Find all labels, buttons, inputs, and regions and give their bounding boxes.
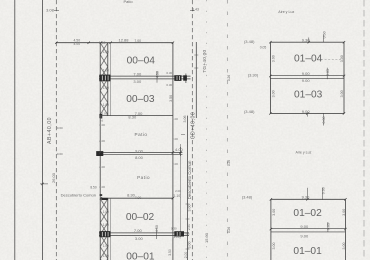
svg-text:1.00: 1.00 xyxy=(172,117,178,121)
svg-text:9.30: 9.30 xyxy=(302,38,311,43)
svg-text:9.30: 9.30 xyxy=(302,194,311,199)
svg-text:1.00: 1.00 xyxy=(100,115,104,122)
svg-text:1.00: 1.00 xyxy=(103,244,109,248)
svg-text:0.60: 0.60 xyxy=(323,31,327,38)
svg-text:1.00: 1.00 xyxy=(103,69,109,73)
svg-text:1.00: 1.00 xyxy=(103,223,109,227)
svg-text:(3.30): (3.30) xyxy=(248,72,259,77)
svg-text:01–01: 01–01 xyxy=(293,246,322,257)
svg-text:3.00: 3.00 xyxy=(272,209,276,216)
svg-text:0.05: 0.05 xyxy=(326,69,330,76)
svg-text:8.30: 8.30 xyxy=(128,115,137,120)
svg-text:1.00: 1.00 xyxy=(103,86,109,90)
svg-text:9.00: 9.00 xyxy=(300,224,309,229)
svg-text:0.30: 0.30 xyxy=(166,83,172,87)
svg-text:0.05: 0.05 xyxy=(260,45,267,49)
svg-text:(3.48): (3.48) xyxy=(244,109,255,114)
svg-text:1.00: 1.00 xyxy=(99,41,106,45)
svg-text:0.60: 0.60 xyxy=(57,152,63,156)
svg-text:3.00: 3.00 xyxy=(271,90,275,97)
svg-text:3.00: 3.00 xyxy=(272,243,276,250)
svg-text:3.00: 3.00 xyxy=(133,79,142,84)
svg-text:4.00: 4.00 xyxy=(175,147,184,152)
svg-text:1.00: 1.00 xyxy=(102,112,108,116)
svg-text:2.00: 2.00 xyxy=(172,137,178,141)
svg-text:(3.48): (3.48) xyxy=(242,195,253,200)
svg-text:3.50: 3.50 xyxy=(168,249,172,256)
svg-text:00–01: 00–01 xyxy=(126,252,155,260)
svg-text:8.00: 8.00 xyxy=(135,155,144,160)
svg-text:4.50: 4.50 xyxy=(156,71,160,78)
svg-text:0.26: 0.26 xyxy=(227,160,231,166)
svg-text:3.00: 3.00 xyxy=(342,243,346,250)
svg-text:00–04: 00–04 xyxy=(127,55,156,66)
svg-text:0.30: 0.30 xyxy=(171,227,177,231)
svg-text:00–02: 00–02 xyxy=(126,212,155,223)
svg-text:0.60: 0.60 xyxy=(57,126,63,130)
svg-text:Patio: Patio xyxy=(135,132,148,137)
svg-text:26.00: 26.00 xyxy=(51,172,56,183)
svg-text:0.30: 0.30 xyxy=(166,71,172,75)
svg-text:4.00: 4.00 xyxy=(73,42,80,46)
svg-text:12.88: 12.88 xyxy=(118,38,129,43)
svg-text:AB+40,00: AB+40,00 xyxy=(47,117,53,144)
svg-text:9.00: 9.00 xyxy=(302,71,311,76)
svg-text:4.50: 4.50 xyxy=(155,225,159,232)
svg-text:0.26: 0.26 xyxy=(227,227,231,233)
svg-text:01–02: 01–02 xyxy=(293,208,322,219)
svg-text:3.00: 3.00 xyxy=(188,205,192,212)
svg-text:2.00: 2.00 xyxy=(99,139,105,143)
svg-text:CD+40,00: CD+40,00 xyxy=(191,112,197,140)
svg-text:1.43: 1.43 xyxy=(192,8,199,12)
svg-text:2.50: 2.50 xyxy=(187,224,191,231)
svg-text:2.00: 2.00 xyxy=(184,252,188,259)
svg-text:1.00: 1.00 xyxy=(99,185,105,189)
svg-text:8.50: 8.50 xyxy=(90,186,96,190)
svg-text:0.05: 0.05 xyxy=(327,223,331,230)
svg-text:2.00: 2.00 xyxy=(175,189,181,193)
svg-text:3.00: 3.00 xyxy=(340,90,344,97)
svg-text:01–03: 01–03 xyxy=(294,90,323,101)
svg-text:Descubierto Común: Descubierto Común xyxy=(187,160,192,199)
svg-text:Aire y Luz: Aire y Luz xyxy=(296,150,312,154)
svg-text:0.26: 0.26 xyxy=(227,75,231,81)
svg-text:Aire y Luz: Aire y Luz xyxy=(278,10,294,14)
svg-text:1.00: 1.00 xyxy=(103,254,109,258)
svg-text:1.00: 1.00 xyxy=(103,210,109,214)
svg-text:Descubierto Común: Descubierto Común xyxy=(61,193,96,198)
svg-text:3.08: 3.08 xyxy=(46,8,55,13)
svg-text:9.00: 9.00 xyxy=(135,148,144,153)
svg-text:3.00: 3.00 xyxy=(135,236,144,241)
svg-text:7.00: 7.00 xyxy=(134,39,141,43)
svg-text:Patio: Patio xyxy=(137,175,150,180)
svg-text:0.60: 0.60 xyxy=(322,117,326,124)
svg-text:(3.48): (3.48) xyxy=(244,39,255,44)
svg-text:3.06: 3.06 xyxy=(183,116,187,123)
svg-text:(1.10): (1.10) xyxy=(172,235,180,239)
svg-text:7.00: 7.00 xyxy=(134,228,143,233)
svg-text:01–04: 01–04 xyxy=(294,54,323,65)
svg-text:2.00: 2.00 xyxy=(99,165,105,169)
svg-text:1.00: 1.00 xyxy=(103,50,109,54)
svg-text:9.00: 9.00 xyxy=(302,78,311,83)
svg-text:Patio: Patio xyxy=(123,0,133,4)
svg-text:1.00: 1.00 xyxy=(103,103,109,107)
svg-text:3.00: 3.00 xyxy=(188,242,192,249)
svg-text:3.00: 3.00 xyxy=(340,55,344,62)
svg-text:3.50: 3.50 xyxy=(169,95,173,102)
svg-text:00–03: 00–03 xyxy=(126,94,155,105)
svg-text:3.00: 3.00 xyxy=(342,209,346,216)
svg-text:(1.10): (1.10) xyxy=(173,194,181,198)
svg-text:15.00: 15.00 xyxy=(204,232,209,243)
svg-text:7.00: 7.00 xyxy=(135,196,142,200)
svg-text:7.00: 7.00 xyxy=(133,72,142,77)
svg-text:9.00: 9.00 xyxy=(300,233,309,238)
svg-text:2.00: 2.00 xyxy=(172,162,178,166)
svg-text:9.00: 9.00 xyxy=(302,109,311,114)
svg-text:0.60: 0.60 xyxy=(321,187,325,194)
svg-text:1.00: 1.00 xyxy=(99,123,105,127)
svg-text:3.00: 3.00 xyxy=(271,55,275,62)
svg-text:TG+40,00: TG+40,00 xyxy=(202,50,208,73)
